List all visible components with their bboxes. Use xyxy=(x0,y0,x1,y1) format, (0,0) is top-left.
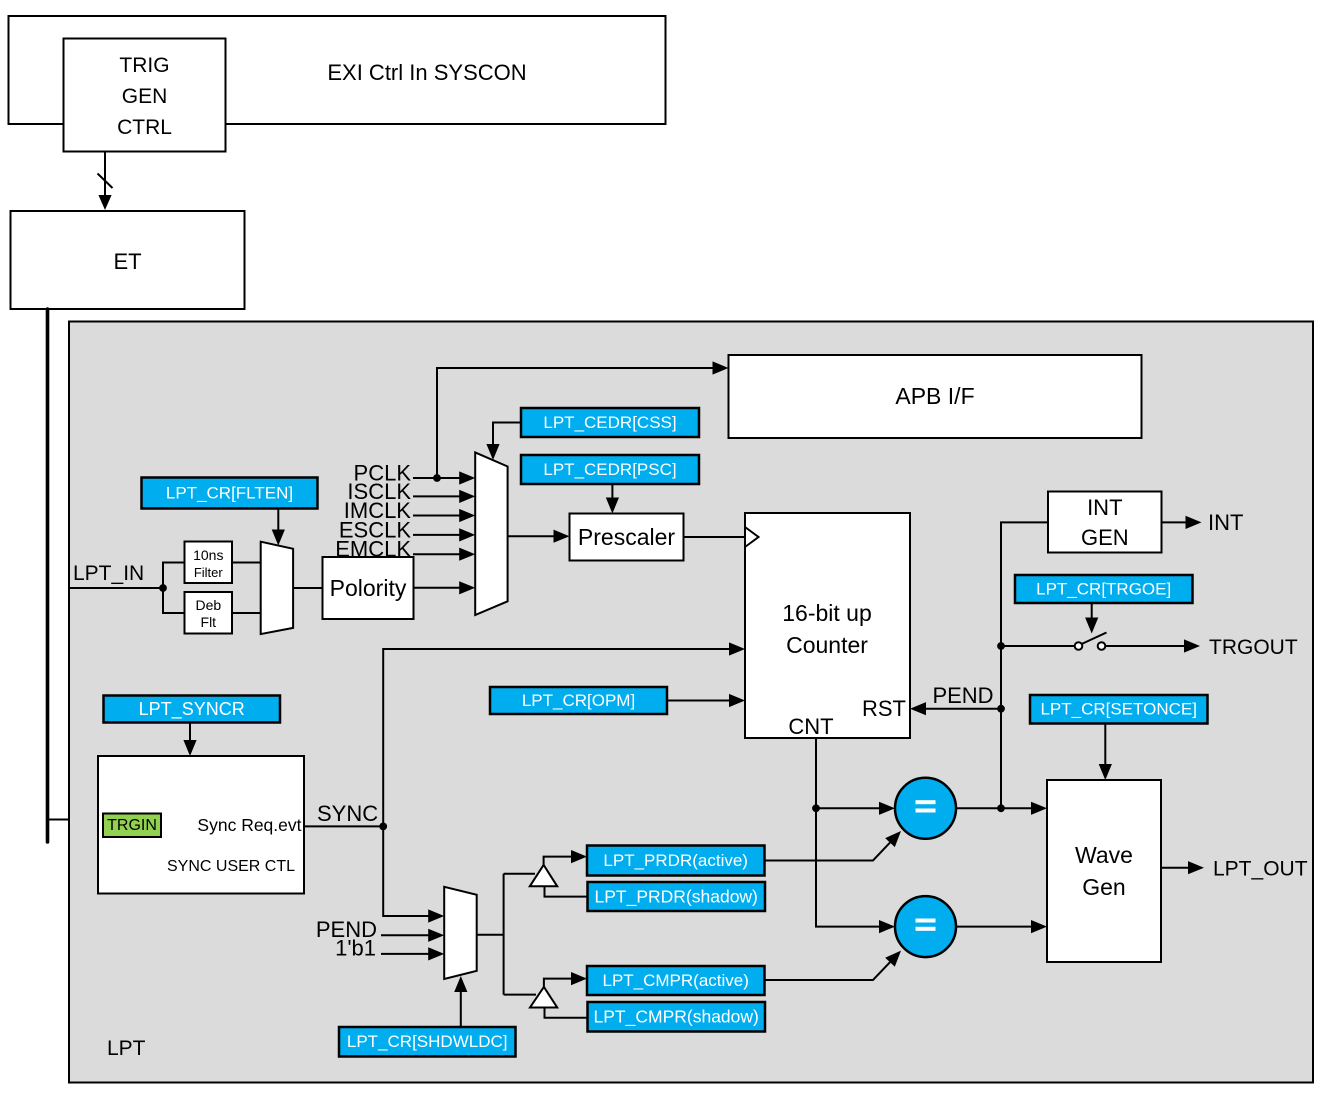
svg-text:INT: INT xyxy=(1208,510,1243,535)
switch TRGOE xyxy=(1075,633,1107,650)
svg-text:Sync Req.evt: Sync Req.evt xyxy=(197,815,301,835)
wire CNT net xyxy=(816,738,895,933)
svg-text:16-bit up: 16-bit up xyxy=(782,600,872,626)
wire filter mux to Polority xyxy=(293,587,322,589)
register LPT_CEDR[CSS] xyxy=(521,408,699,437)
register LPT_CR[SHDWLDC] xyxy=(339,1027,516,1057)
wire Polority to clock mux xyxy=(414,581,476,594)
wire PEND to counter RST xyxy=(910,702,1001,715)
node PEND junction xyxy=(997,705,1005,713)
svg-text:Polority: Polority xyxy=(330,575,407,601)
register LPT_CR[SETONCE] xyxy=(1030,695,1208,724)
svg-text:GEN: GEN xyxy=(1081,525,1129,550)
svg-text:PEND: PEND xyxy=(932,683,993,708)
svg-text:CTRL: CTRL xyxy=(117,116,172,139)
wire LPT_PRDR(active) to comparator 1 xyxy=(765,831,902,861)
svg-text:Flt: Flt xyxy=(201,614,217,630)
wire ESCLK xyxy=(413,528,475,541)
svg-text:Filter: Filter xyxy=(194,565,224,580)
wire Deb Flt to mux xyxy=(232,612,261,614)
svg-text:LPT_CEDR[CSS]: LPT_CEDR[CSS] xyxy=(543,413,676,432)
block Prescaler xyxy=(570,514,684,561)
svg-text:LPT_CMPR(active): LPT_CMPR(active) xyxy=(602,971,748,990)
wire PEND to shadow mux xyxy=(381,929,444,942)
svg-text:Gen: Gen xyxy=(1082,874,1125,900)
block 10ns Filter xyxy=(185,542,233,584)
register LPT_CMPR(shadow) xyxy=(588,1002,766,1032)
wire CMPR triangle to LPT_CMPR(shadow) xyxy=(545,1008,588,1018)
comparator 1 xyxy=(895,778,956,839)
LPT enclosure xyxy=(69,322,1313,1083)
wire ET trunk (thick) xyxy=(46,309,50,842)
wire EMCLK xyxy=(413,548,475,561)
register LPT_CR[FLTEN] xyxy=(142,478,318,509)
svg-text:TRGOUT: TRGOUT xyxy=(1209,636,1298,659)
block APB I/F xyxy=(729,355,1142,438)
wire LPT_CR[FLTEN] to filter mux xyxy=(272,509,285,546)
register LPT_CR[OPM] xyxy=(490,687,667,714)
svg-text:APB I/F: APB I/F xyxy=(895,383,974,409)
wire comparator 1 to Wave Gen xyxy=(956,802,1047,815)
svg-text:LPT_SYNCR: LPT_SYNCR xyxy=(139,699,245,720)
svg-text:LPT_CR[SHDWLDC]: LPT_CR[SHDWLDC] xyxy=(347,1032,508,1051)
node CNT junction xyxy=(812,804,820,812)
wire LPT_CEDR[CSS] to clock mux xyxy=(486,423,521,461)
mux clock select xyxy=(475,452,507,615)
svg-text:Deb: Deb xyxy=(195,597,221,613)
svg-text:Counter: Counter xyxy=(786,632,868,658)
latch triangle CMPR xyxy=(530,987,557,1008)
wire SYNC net xyxy=(304,642,745,922)
block 16-bit up Counter xyxy=(745,513,910,739)
block TRIG GEN CTRL xyxy=(64,39,226,152)
block ET xyxy=(11,211,245,309)
wire LPT_CR[TRGOE] to switch xyxy=(1085,603,1098,634)
svg-text:LPT_CMPR(shadow): LPT_CMPR(shadow) xyxy=(594,1007,759,1028)
wire 10ns Filter to mux xyxy=(232,562,261,564)
block INT GEN xyxy=(1048,492,1162,553)
register LPT_PRDR(shadow) xyxy=(588,882,766,911)
wire comparator 2 to Wave Gen xyxy=(956,920,1047,933)
svg-text:LPT_CR[FLTEN]: LPT_CR[FLTEN] xyxy=(166,484,293,503)
svg-text:LPT: LPT xyxy=(107,1037,146,1060)
node TRGOUT junction xyxy=(997,642,1005,650)
block Polority xyxy=(323,557,414,619)
wire PRDR triangle to LPT_PRDR(shadow) xyxy=(545,886,588,896)
svg-text:LPT_PRDR(active): LPT_PRDR(active) xyxy=(603,851,748,870)
wire Wave Gen to LPT_OUT xyxy=(1161,861,1204,874)
wire LPT_IN xyxy=(69,563,185,614)
block Wave Gen xyxy=(1047,780,1161,962)
wire trunk to SYNC USER CTL xyxy=(48,819,99,821)
register LPT_PRDR(active) xyxy=(587,846,765,876)
wire LPT_CR[SHDWLDC] to shadow mux xyxy=(454,976,467,1027)
wire PCLK xyxy=(413,471,475,484)
svg-text:SYNC USER CTL: SYNC USER CTL xyxy=(167,858,295,875)
svg-text:SYNC: SYNC xyxy=(317,801,378,826)
svg-text:TRGIN: TRGIN xyxy=(107,817,157,834)
svg-text:EXI Ctrl In SYSCON: EXI Ctrl In SYSCON xyxy=(327,60,526,85)
wire PEND vertical net to INT GEN xyxy=(1001,522,1048,808)
svg-text:LPT_CR[OPM]: LPT_CR[OPM] xyxy=(522,691,635,710)
wire IMCLK xyxy=(413,509,475,522)
node PCLK junction xyxy=(433,474,441,482)
wire 1'b1 to shadow mux xyxy=(381,947,444,960)
wire ISCLK xyxy=(413,490,475,503)
svg-text:GEN: GEN xyxy=(122,85,168,108)
register LPT_CMPR(active) xyxy=(587,966,765,995)
wire INT GEN to INT xyxy=(1162,516,1202,529)
register LPT_SYNCR xyxy=(104,696,281,723)
svg-text:LPT_OUT: LPT_OUT xyxy=(1213,858,1308,881)
svg-text:LPT_PRDR(shadow): LPT_PRDR(shadow) xyxy=(595,887,758,908)
svg-text:LPT_CEDR[PSC]: LPT_CEDR[PSC] xyxy=(543,460,676,479)
svg-text:ET: ET xyxy=(113,249,141,274)
node LPT_IN junction xyxy=(159,584,167,592)
wire LPT_CEDR[PSC] to Prescaler xyxy=(606,484,619,514)
svg-text:INT: INT xyxy=(1087,495,1122,520)
latch triangle PRDR xyxy=(530,865,557,886)
wire LPT_CR[SETONCE] to Wave Gen xyxy=(1099,724,1112,781)
svg-text:10ns: 10ns xyxy=(193,547,223,563)
wire CMPR triangle to LPT_CMPR(active) xyxy=(544,972,587,987)
register LPT_CEDR[PSC] xyxy=(521,455,699,484)
comparator 2 xyxy=(895,896,956,957)
svg-text:Prescaler: Prescaler xyxy=(578,524,675,550)
wire TRGOUT net xyxy=(1001,639,1200,652)
wire Prescaler to counter clock xyxy=(684,536,746,538)
svg-text:CNT: CNT xyxy=(788,714,833,739)
block SYNC USER CTL xyxy=(98,756,304,894)
wire TRIG GEN CTRL to ET with bus slash xyxy=(98,152,113,211)
block EXI Ctrl In SYSCON xyxy=(9,16,666,124)
register LPT_CR[TRGOE] xyxy=(1015,575,1193,603)
mux shadow select xyxy=(444,887,477,979)
node PEND-WaveGen junction xyxy=(997,804,1005,812)
port TRGIN xyxy=(103,814,161,838)
wire clock mux to Prescaler xyxy=(508,530,570,543)
mux filter select xyxy=(261,542,293,634)
wire LPT_CR[OPM] to counter xyxy=(667,694,745,707)
svg-text:RST: RST xyxy=(862,696,906,721)
svg-text:LPT_CR[SETONCE]: LPT_CR[SETONCE] xyxy=(1040,700,1197,719)
wire shadow mux output tree xyxy=(477,874,536,995)
svg-text:LPT_CR[TRGOE]: LPT_CR[TRGOE] xyxy=(1036,580,1171,599)
svg-text:TRIG: TRIG xyxy=(119,54,169,77)
wire LPT_CMPR(active) to comparator 2 xyxy=(765,951,902,980)
wire LPT_SYNCR to SYNC USER CTL xyxy=(183,723,196,757)
wire PCLK tap to APB I/F xyxy=(437,361,729,478)
svg-text:LPT_IN: LPT_IN xyxy=(73,562,144,585)
node SYNC junction xyxy=(379,823,387,831)
svg-text:Wave: Wave xyxy=(1075,842,1133,868)
block Deb Flt xyxy=(185,592,233,634)
svg-text:1'b1: 1'b1 xyxy=(335,936,376,961)
wire PRDR triangle to LPT_PRDR(active) xyxy=(544,850,587,865)
